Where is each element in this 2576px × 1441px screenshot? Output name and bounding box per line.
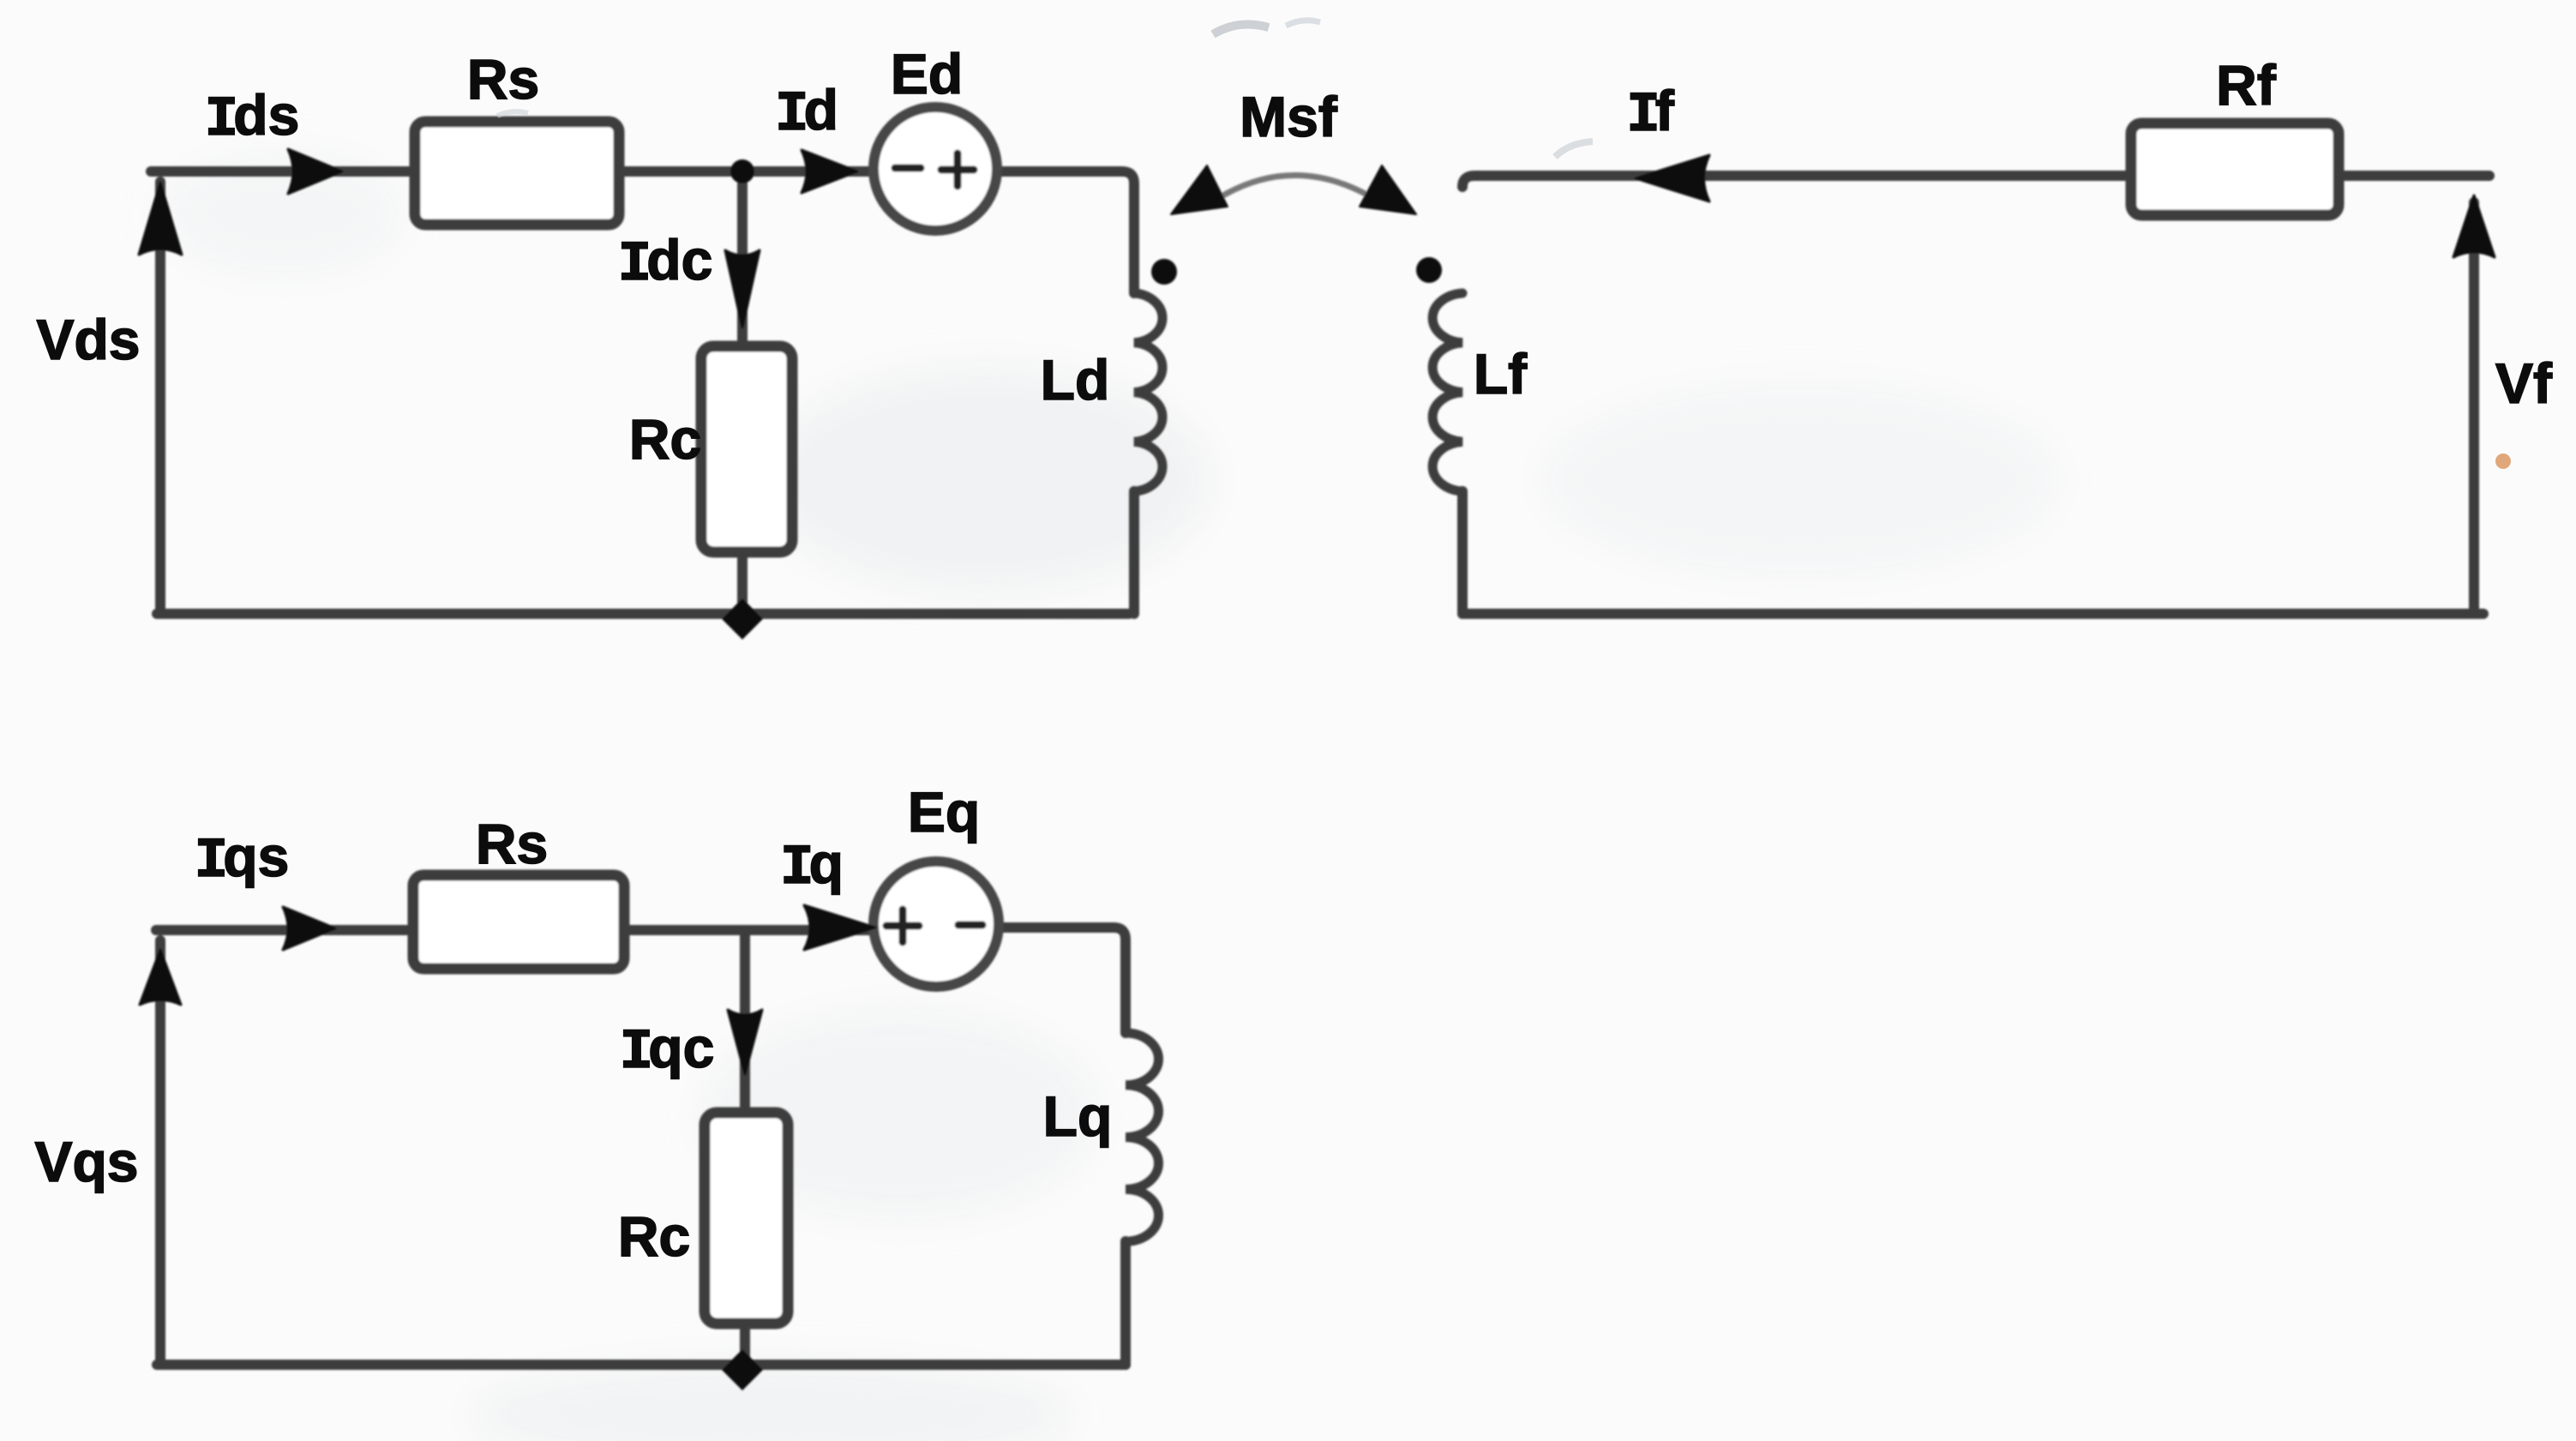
svg-text:Idc: Idc (618, 228, 713, 297)
svg-text:Ids: Ids (205, 83, 300, 152)
svg-text:Rf: Rf (2216, 53, 2277, 117)
svg-text:Rc: Rc (618, 1204, 690, 1268)
svg-text:Iq: Iq (780, 832, 844, 900)
svg-text:Iqs: Iqs (195, 825, 290, 893)
svg-text:Ed: Ed (891, 42, 963, 105)
svg-text:Lf: Lf (1474, 342, 1528, 405)
svg-text:Eq: Eq (908, 780, 980, 844)
svg-text:Rc: Rc (629, 407, 701, 471)
svg-text:Iqc: Iqc (620, 1016, 715, 1084)
svg-text:Id: Id (775, 78, 838, 147)
svg-text:Vds: Vds (36, 308, 140, 371)
svg-text:If: If (1626, 79, 1675, 147)
svg-text:Lq: Lq (1043, 1084, 1113, 1148)
svg-text:Vf: Vf (2495, 351, 2553, 415)
svg-text:Rs: Rs (467, 47, 539, 111)
svg-text:Vqs: Vqs (34, 1130, 138, 1193)
svg-text:Rs: Rs (476, 812, 548, 875)
svg-text:Msf: Msf (1240, 85, 1338, 148)
svg-text:Ld: Ld (1041, 348, 1110, 411)
